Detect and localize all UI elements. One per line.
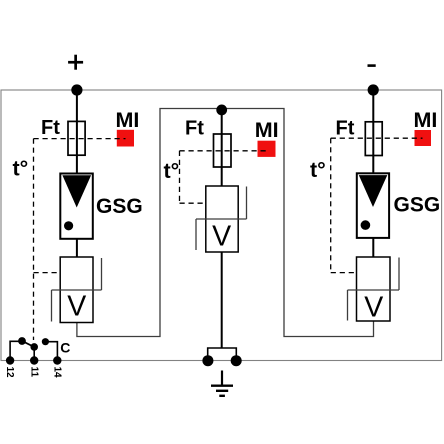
indicator MI middle (red square) — [258, 141, 276, 157]
earth node dot left — [202, 355, 213, 366]
changeover contact: fixed contact A dot — [18, 337, 26, 345]
node minus (junction dot) — [368, 84, 379, 95]
svg-text:Ft: Ft — [336, 118, 355, 140]
changeover contact: switch arm — [22, 341, 34, 347]
wire R1 (right branch vertical) — [372, 90, 374, 173]
spark gap GSG left (dot) — [64, 221, 73, 230]
svg-text:GSG: GSG — [96, 195, 143, 218]
varistor V middle (divider with disconnector) — [196, 218, 247, 220]
svg-text:14: 14 — [51, 367, 62, 379]
svg-text:11: 11 — [29, 367, 40, 378]
fuse Ft left — [68, 121, 85, 155]
terminal dot 12 — [6, 356, 14, 364]
varistor V right (divider with disconnector) — [348, 289, 400, 291]
ground bracket (middle branch to earth dots) — [208, 348, 237, 361]
dashed monitoring link right — [331, 138, 423, 272]
varistor V middle (box) — [206, 186, 238, 252]
indicator MI right (red square) — [415, 130, 432, 146]
svg-text:MI: MI — [255, 118, 279, 142]
svg-text:V: V — [67, 291, 86, 323]
svg-text:MI: MI — [116, 108, 140, 132]
spark gap GSG right (box) — [357, 173, 389, 238]
node plus (junction dot) — [71, 84, 82, 95]
ground symbol — [211, 371, 233, 396]
svg-text:Ft: Ft — [41, 117, 60, 139]
varistor V left (divider with disconnector) — [52, 289, 102, 291]
svg-text:t°: t° — [164, 159, 180, 183]
fuse Ft middle — [214, 134, 232, 167]
spark gap GSG left (box) — [60, 174, 93, 239]
terminal dot 11 — [30, 356, 38, 364]
spark gap GSG right (dot) — [361, 220, 371, 230]
varistor V left (lower-left bracket) — [51, 290, 53, 322]
earth node dot right — [231, 355, 242, 366]
inner wiring path (left varistor bottom around middle branch to right varistor bottom) — [77, 109, 374, 337]
terminal plus (+) — [68, 55, 83, 70]
svg-text:C: C — [60, 339, 70, 355]
varistor V right (box) — [357, 257, 391, 321]
varistor V left (box) — [60, 257, 93, 323]
varistor V right (upper-right bracket) — [398, 258, 400, 291]
svg-text:t°: t° — [310, 158, 326, 182]
node middle (junction dot) — [216, 105, 227, 116]
enclosure border — [1, 90, 442, 361]
wire M2 (middle varistor to ground bracket) — [221, 252, 223, 348]
svg-text:12: 12 — [4, 367, 15, 379]
varistor V middle (upper-right bracket) — [246, 187, 248, 220]
svg-text:GSG: GSG — [394, 194, 441, 217]
svg-text:MI: MI — [414, 108, 438, 132]
changeover contact: common stub to terminal 11 — [33, 347, 35, 361]
dashed monitoring link middle — [180, 151, 267, 203]
changeover contact: terminal 12 lead — [10, 341, 22, 360]
changeover contact: common dot B — [30, 343, 38, 351]
svg-text:V: V — [212, 221, 231, 253]
svg-text:V: V — [364, 292, 383, 324]
fuse Ft right — [365, 122, 382, 156]
varistor V middle (lower-left bracket) — [195, 219, 197, 250]
spark gap GSG right (triangle electrode) — [359, 175, 388, 207]
wire R2 (right GSG to varistor) — [372, 238, 374, 258]
svg-text:t°: t° — [13, 156, 29, 180]
terminal minus (-) — [368, 64, 376, 67]
svg-text:Ft: Ft — [185, 118, 204, 140]
changeover contact: fixed contact C dot — [42, 338, 49, 345]
wire L2 (left GSG to varistor) — [76, 239, 78, 257]
dashed monitoring link left (t° to fuse to MI) — [34, 139, 126, 340]
wire M1 (middle branch vertical) — [221, 110, 223, 186]
terminal dot 14 — [53, 356, 61, 364]
varistor V right (lower-left bracket) — [347, 290, 349, 321]
wire L1 (left branch vertical) — [76, 90, 78, 174]
varistor V left (upper-right bracket) — [101, 258, 103, 290]
changeover contact: terminal 14 lead — [45, 342, 57, 361]
spark gap GSG left (triangle electrode) — [62, 175, 91, 207]
indicator MI left (red square) — [117, 130, 134, 147]
